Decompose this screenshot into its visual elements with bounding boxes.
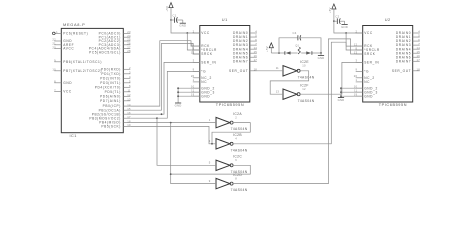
wire U1 GND pins to ground — [178, 88, 200, 103]
svg-text:13: 13 — [276, 89, 280, 93]
wire IC2E output to IC2F input — [270, 71, 309, 94]
U1 pin 1 NC — [193, 78, 208, 84]
svg-text:5: 5 — [209, 161, 211, 165]
svg-text:5: 5 — [129, 80, 131, 84]
U2 pin 15 DRAIN5 — [396, 50, 420, 55]
U2 pin 19 GND — [354, 93, 373, 99]
IC1 pin 4 PD2(INT0) — [100, 75, 131, 80]
inverter IC2D 74AS04N — [209, 173, 248, 192]
svg-text:1: 1 — [193, 78, 195, 82]
ground symbol U2 — [338, 98, 345, 102]
junction U1 GND — [177, 95, 179, 97]
wire IC2C output to IC2D input — [171, 165, 251, 183]
svg-text:74AS04N: 74AS04N — [231, 188, 248, 192]
svg-text:PC5(ADC5/SCL): PC5(ADC5/SCL) — [89, 51, 121, 55]
IC1 pin 13 PD7(AIN1) — [100, 98, 131, 103]
svg-text:Q1: Q1 — [295, 45, 299, 48]
svg-text:PB7(XTAL2/TOSC2): PB7(XTAL2/TOSC2) — [63, 69, 102, 73]
junction U1 GND_3 — [177, 91, 179, 93]
svg-text:6: 6 — [235, 158, 237, 162]
svg-text:SER_OUT: SER_OUT — [392, 69, 411, 73]
svg-text:7: 7 — [418, 42, 420, 46]
U1 pin 10 GND_2 — [191, 85, 215, 91]
ground symbol for C1 — [179, 20, 186, 28]
svg-text:74AS04N: 74AS04N — [231, 148, 248, 152]
svg-text:NC: NC — [201, 80, 207, 84]
svg-text:GND: GND — [175, 103, 182, 107]
wire U1 SER_OUT to IC2E input — [257, 70, 283, 72]
IC1 pin 27 PC4(ADC4/SDA) — [89, 45, 131, 50]
svg-text:12: 12 — [302, 87, 306, 91]
svg-text:17: 17 — [254, 58, 258, 62]
U2 pin 17 DRAIN7 — [396, 58, 420, 63]
U1 pin 12 RCK — [191, 42, 210, 48]
svg-text:14: 14 — [417, 46, 421, 50]
svg-text:6: 6 — [255, 38, 257, 42]
capacitor C4 — [293, 31, 301, 40]
U1 pin 15 DRAIN5 — [233, 50, 257, 55]
wire branch down to IC2D input net — [170, 123, 172, 175]
svg-text:SER_IN: SER_IN — [201, 61, 216, 65]
junction U2 GND_3 — [340, 91, 342, 93]
U1 pin 18 SER_OUT — [229, 67, 257, 73]
wire IC2A output to IC2B input — [212, 123, 250, 144]
svg-text:9: 9 — [355, 68, 357, 72]
U2 pin 9 *G — [355, 68, 369, 74]
IC1 pin 25 PC2(ADC2) — [99, 38, 131, 43]
wire +5V to U2 VCC pin 2 — [334, 21, 363, 33]
U2 pin 2 VCC — [355, 29, 372, 35]
IC1 pin 6 PD4(XCK/T0) — [95, 84, 131, 89]
svg-text:2: 2 — [235, 115, 237, 119]
inverter IC2E 74AS04N — [276, 60, 315, 79]
svg-text:GND: GND — [318, 56, 325, 60]
svg-text:TPIC6B595N: TPIC6B595N — [379, 103, 407, 107]
svg-text:C4: C4 — [293, 31, 297, 35]
junction U2 GND — [340, 95, 342, 97]
svg-text:+5V: +5V — [165, 6, 169, 12]
svg-text:5: 5 — [418, 34, 420, 38]
microcontroller IC1 MEGA8-P (ATmega8) box — [61, 22, 123, 138]
svg-text:14: 14 — [254, 46, 258, 50]
junction PB2 wire node — [161, 113, 163, 115]
svg-text:PB5(SCK): PB5(SCK) — [101, 125, 121, 129]
svg-text:9: 9 — [209, 179, 211, 183]
svg-text:PD0(RXD): PD0(RXD) — [101, 67, 121, 71]
+5V supply symbol for clamp network — [265, 43, 273, 53]
IC1 pin 26 PC3(ADC3) — [99, 42, 131, 47]
svg-text:PD2(INT0): PD2(INT0) — [100, 76, 121, 80]
U2 pin 20 NC_2 — [354, 74, 375, 80]
shift register U2 TPIC6B595N box — [363, 17, 413, 107]
junction U1 GND_2 — [177, 87, 179, 89]
U1 pin 5 DRAIN1 — [233, 34, 257, 39]
svg-text:SRCK: SRCK — [201, 52, 213, 56]
svg-text:7: 7 — [255, 42, 257, 46]
wire IC1 PB2 to U1 SER_IN — [130, 62, 200, 114]
U1 pin 9 *G — [193, 68, 207, 74]
svg-text:15: 15 — [254, 50, 258, 54]
svg-text:GND: GND — [63, 81, 72, 85]
junction U2 GND_2 — [340, 87, 342, 89]
wire IC1 PB4 to IC2A input — [130, 122, 216, 124]
inverter IC2A 74AS04N — [209, 112, 248, 131]
U1 pin 13 SRCK — [191, 50, 213, 56]
U2 pin 4 DRAIN0 — [396, 30, 420, 35]
IC1 pin 21 AREF — [52, 42, 74, 47]
IC1 pin 7 VCC — [54, 88, 72, 93]
svg-text:28: 28 — [127, 49, 131, 53]
IC1 pin 3 PD1(TXD) — [101, 71, 131, 76]
svg-text:9: 9 — [54, 59, 56, 63]
svg-text:16: 16 — [417, 54, 421, 58]
U2 pin 8 *SRCLR — [355, 46, 379, 52]
inductor/crystal Q1 element — [295, 45, 300, 54]
U1 pin 17 DRAIN7 — [233, 58, 257, 63]
IC1 pin 14 PB0(ICP) — [103, 103, 131, 108]
IC1 pin 19 PB5(SCK) — [101, 123, 131, 128]
U2 pin 11 GND_3 — [354, 89, 378, 95]
U2 pin 14 DRAIN4 — [396, 46, 420, 51]
svg-text:VCC: VCC — [63, 90, 72, 94]
svg-text:15: 15 — [417, 50, 421, 54]
U2 pin 16 DRAIN6 — [396, 54, 420, 59]
svg-text:VCC: VCC — [201, 31, 210, 35]
junction IC2D input branch — [170, 173, 172, 175]
svg-text:AVCC: AVCC — [63, 47, 74, 51]
diode D2 — [306, 51, 312, 55]
IC1 pin 5 PD3(INT1) — [100, 80, 131, 85]
svg-text:4: 4 — [235, 137, 237, 141]
svg-text:18: 18 — [417, 67, 421, 71]
svg-text:74AS04N: 74AS04N — [298, 99, 315, 103]
svg-text:MEGA8-P: MEGA8-P — [63, 22, 85, 27]
svg-text:4: 4 — [255, 30, 257, 34]
svg-text:12: 12 — [127, 93, 131, 97]
U1 pin 16 DRAIN6 — [233, 54, 257, 59]
svg-text:U1: U1 — [222, 17, 228, 22]
IC1 pin 1 PC6(RESET) — [53, 30, 89, 36]
wire +5V to U1 VCC pin 2 — [171, 20, 200, 33]
wire U2 GND pins to ground — [341, 88, 363, 97]
wire +5V to U2 *SRCLR pin 8 — [346, 33, 363, 50]
wire PB3 branch to U1 *G pin 9 — [157, 71, 200, 118]
svg-text:11: 11 — [127, 89, 130, 93]
svg-text:*G: *G — [201, 70, 206, 74]
svg-text:20: 20 — [52, 45, 56, 49]
svg-text:7: 7 — [54, 88, 56, 92]
svg-text:PD6(AIN0): PD6(AIN0) — [100, 94, 121, 98]
U2 pin 6 DRAIN2 — [396, 38, 420, 43]
svg-text:PD1(TXD): PD1(TXD) — [101, 72, 121, 76]
svg-text:1: 1 — [355, 78, 357, 82]
IC1 pin 9 PB6(XTAL1/TOSC1) — [54, 59, 102, 64]
svg-text:2: 2 — [129, 66, 131, 70]
+5V supply symbol near U1 — [165, 3, 173, 20]
svg-text:3: 3 — [129, 71, 131, 75]
svg-text:10: 10 — [52, 68, 56, 72]
IC1 pin 28 PC5(ADC5/SCL) — [89, 49, 131, 54]
wire clamp top branch — [279, 38, 321, 53]
U1 pin 8 *SRCLR — [193, 46, 217, 52]
wire IC2B output to U2 RCK — [233, 42, 363, 144]
svg-text:+5V: +5V — [328, 7, 332, 13]
ground symbol U1 — [175, 103, 182, 107]
wire IC1 PB3 to IC2C input — [130, 118, 216, 165]
U2 pin 10 GND_2 — [354, 85, 378, 91]
svg-text:PD7(AIN1): PD7(AIN1) — [100, 99, 121, 103]
U1 pin 11 GND_3 — [191, 89, 215, 95]
IC1 pin 20 AVCC — [52, 45, 74, 50]
U2 pin 7 DRAIN3 — [396, 42, 420, 47]
svg-text:NC: NC — [364, 80, 370, 84]
U2 pin 1 NC — [355, 78, 370, 84]
wire +5V to U1 *SRCLR pin 8 — [187, 33, 200, 50]
svg-text:GND: GND — [201, 94, 210, 98]
svg-text:24: 24 — [127, 34, 131, 38]
junction node +5V/C2 — [333, 20, 335, 22]
U1 pin 20 NC_2 — [191, 74, 212, 80]
svg-text:26: 26 — [127, 42, 131, 46]
svg-text:GND: GND — [338, 98, 345, 102]
U1 pin 7 DRAIN3 — [233, 42, 257, 47]
capacitor C2 — [334, 15, 343, 24]
wire IC1 PB1 to U1 SRCK — [130, 43, 200, 110]
ground symbol clamp network — [318, 53, 325, 60]
IC1 pin 15 PB1(OC1A) — [99, 107, 131, 112]
IC1 pin 10 PB7(XTAL2/TOSC2) — [52, 68, 102, 73]
svg-text:10: 10 — [302, 64, 306, 68]
svg-text:4: 4 — [418, 30, 420, 34]
svg-text:8: 8 — [54, 80, 56, 84]
U1 pin 6 DRAIN2 — [233, 38, 257, 43]
inverter IC2C 74AS04N — [209, 155, 248, 174]
wire +5V clamp network bottom rail — [271, 52, 321, 54]
U2 pin 12 RCK — [354, 42, 373, 48]
svg-text:IC1: IC1 — [70, 134, 77, 138]
IC1 pin 16 PB2(SS/OC1B) — [92, 111, 131, 116]
svg-text:PD3(INT1): PD3(INT1) — [100, 81, 121, 85]
svg-text:SER_IN: SER_IN — [364, 61, 379, 65]
svg-text:SER_OUT: SER_OUT — [229, 69, 248, 73]
svg-text:11: 11 — [276, 66, 279, 70]
svg-text:PB3(MOSI/OC2): PB3(MOSI/OC2) — [89, 116, 121, 120]
svg-text:U2: U2 — [385, 17, 391, 22]
svg-text:DRAIN7: DRAIN7 — [396, 59, 411, 63]
svg-text:27: 27 — [127, 45, 131, 49]
svg-text:DRAIN7: DRAIN7 — [233, 59, 248, 63]
svg-text:C2: C2 — [335, 15, 339, 19]
svg-text:GND: GND — [341, 25, 348, 29]
U1 pin 4 DRAIN0 — [233, 30, 257, 35]
svg-text:16: 16 — [254, 54, 258, 58]
svg-text:20: 20 — [354, 74, 358, 78]
svg-text:4: 4 — [129, 75, 131, 79]
IC1 pin 12 PD6(AIN0) — [100, 93, 131, 98]
U1 pin 3 SER_IN — [193, 59, 217, 65]
svg-text:74AS04N: 74AS04N — [298, 75, 315, 79]
IC1 pin 11 PD5(T1) — [105, 89, 131, 94]
svg-text:6: 6 — [418, 38, 420, 42]
svg-text:13: 13 — [127, 98, 131, 102]
IC1 pin 18 PB4(MISO) — [99, 119, 131, 124]
IC1 pin 23 PC0(ADC0) — [99, 30, 131, 35]
svg-text:PC6(RESET): PC6(RESET) — [63, 32, 88, 36]
U2 pin 5 DRAIN1 — [396, 34, 420, 39]
svg-text:1: 1 — [56, 30, 58, 34]
svg-text:20: 20 — [191, 74, 195, 78]
svg-text:23: 23 — [127, 30, 131, 34]
junction +5V branch to U1 SRCLR — [186, 32, 188, 34]
svg-text:TPIC6B595N: TPIC6B595N — [216, 103, 244, 107]
IC1 pin 2 PD0(RXD) — [101, 66, 131, 71]
wire IC1 PB0 to U1 RCK — [130, 41, 200, 106]
inverter IC2B 74AS04N — [209, 133, 248, 152]
U2 pin 3 SER_IN — [355, 59, 379, 65]
junction +5V branch to U2 SRCLR — [345, 32, 347, 34]
svg-text:21: 21 — [52, 42, 56, 46]
U1 pin 14 DRAIN4 — [233, 46, 257, 51]
svg-text:22: 22 — [52, 38, 56, 42]
svg-text:17: 17 — [417, 58, 421, 62]
inverter IC2F 74AS04N — [276, 84, 315, 103]
svg-text:C1: C1 — [173, 13, 177, 17]
+5V supply symbol near U2 — [328, 4, 336, 21]
svg-text:PB6(XTAL1/TOSC1): PB6(XTAL1/TOSC1) — [63, 60, 102, 64]
junction IC2B input — [211, 143, 213, 145]
IC1 pin 8 GND — [54, 80, 72, 85]
wire IC1 PB5 to IC2B input — [130, 126, 216, 143]
U1 pin 2 VCC — [193, 29, 210, 35]
svg-text:8: 8 — [235, 176, 237, 180]
svg-text:*G: *G — [364, 70, 369, 74]
svg-text:VCC: VCC — [364, 31, 373, 35]
capacitor C1 — [171, 13, 182, 22]
svg-text:GND: GND — [179, 24, 186, 28]
junction PB3 branch — [156, 117, 158, 119]
svg-text:PD5(T1): PD5(T1) — [105, 90, 121, 94]
svg-text:PD4(XCK/T0): PD4(XCK/T0) — [95, 85, 121, 89]
ground symbol for C2 — [341, 21, 348, 29]
wire IC2D output to U2 SRCK — [233, 39, 363, 184]
U2 pin 13 SRCK — [354, 50, 376, 56]
svg-text:74AS04N: 74AS04N — [231, 127, 248, 131]
junction clamp right node — [320, 52, 322, 54]
junction clamp left node — [278, 52, 280, 54]
U2 pin 18 SER_OUT — [392, 67, 420, 73]
U1 pin 19 GND — [191, 93, 210, 99]
junction PB4 / branch to IC2D input — [170, 122, 172, 124]
svg-text:+5V: +5V — [265, 46, 269, 52]
svg-text:SRCK: SRCK — [364, 52, 376, 56]
IC1 pin 22 GND — [52, 38, 72, 43]
IC1 pin 24 PC1(ADC1) — [99, 34, 131, 39]
shift register U1 TPIC6B595N box — [200, 17, 250, 107]
svg-text:GND: GND — [364, 94, 373, 98]
svg-text:1: 1 — [209, 118, 211, 122]
wire IC2F output to U2 SER_IN — [300, 62, 363, 94]
junction node +5V/C1 — [170, 19, 172, 21]
IC1 pin 17 PB3(MOSI/OC2) — [89, 115, 131, 120]
diode D1 — [285, 51, 291, 55]
svg-text:5: 5 — [255, 34, 257, 38]
svg-text:25: 25 — [127, 38, 131, 42]
svg-text:6: 6 — [129, 84, 131, 88]
